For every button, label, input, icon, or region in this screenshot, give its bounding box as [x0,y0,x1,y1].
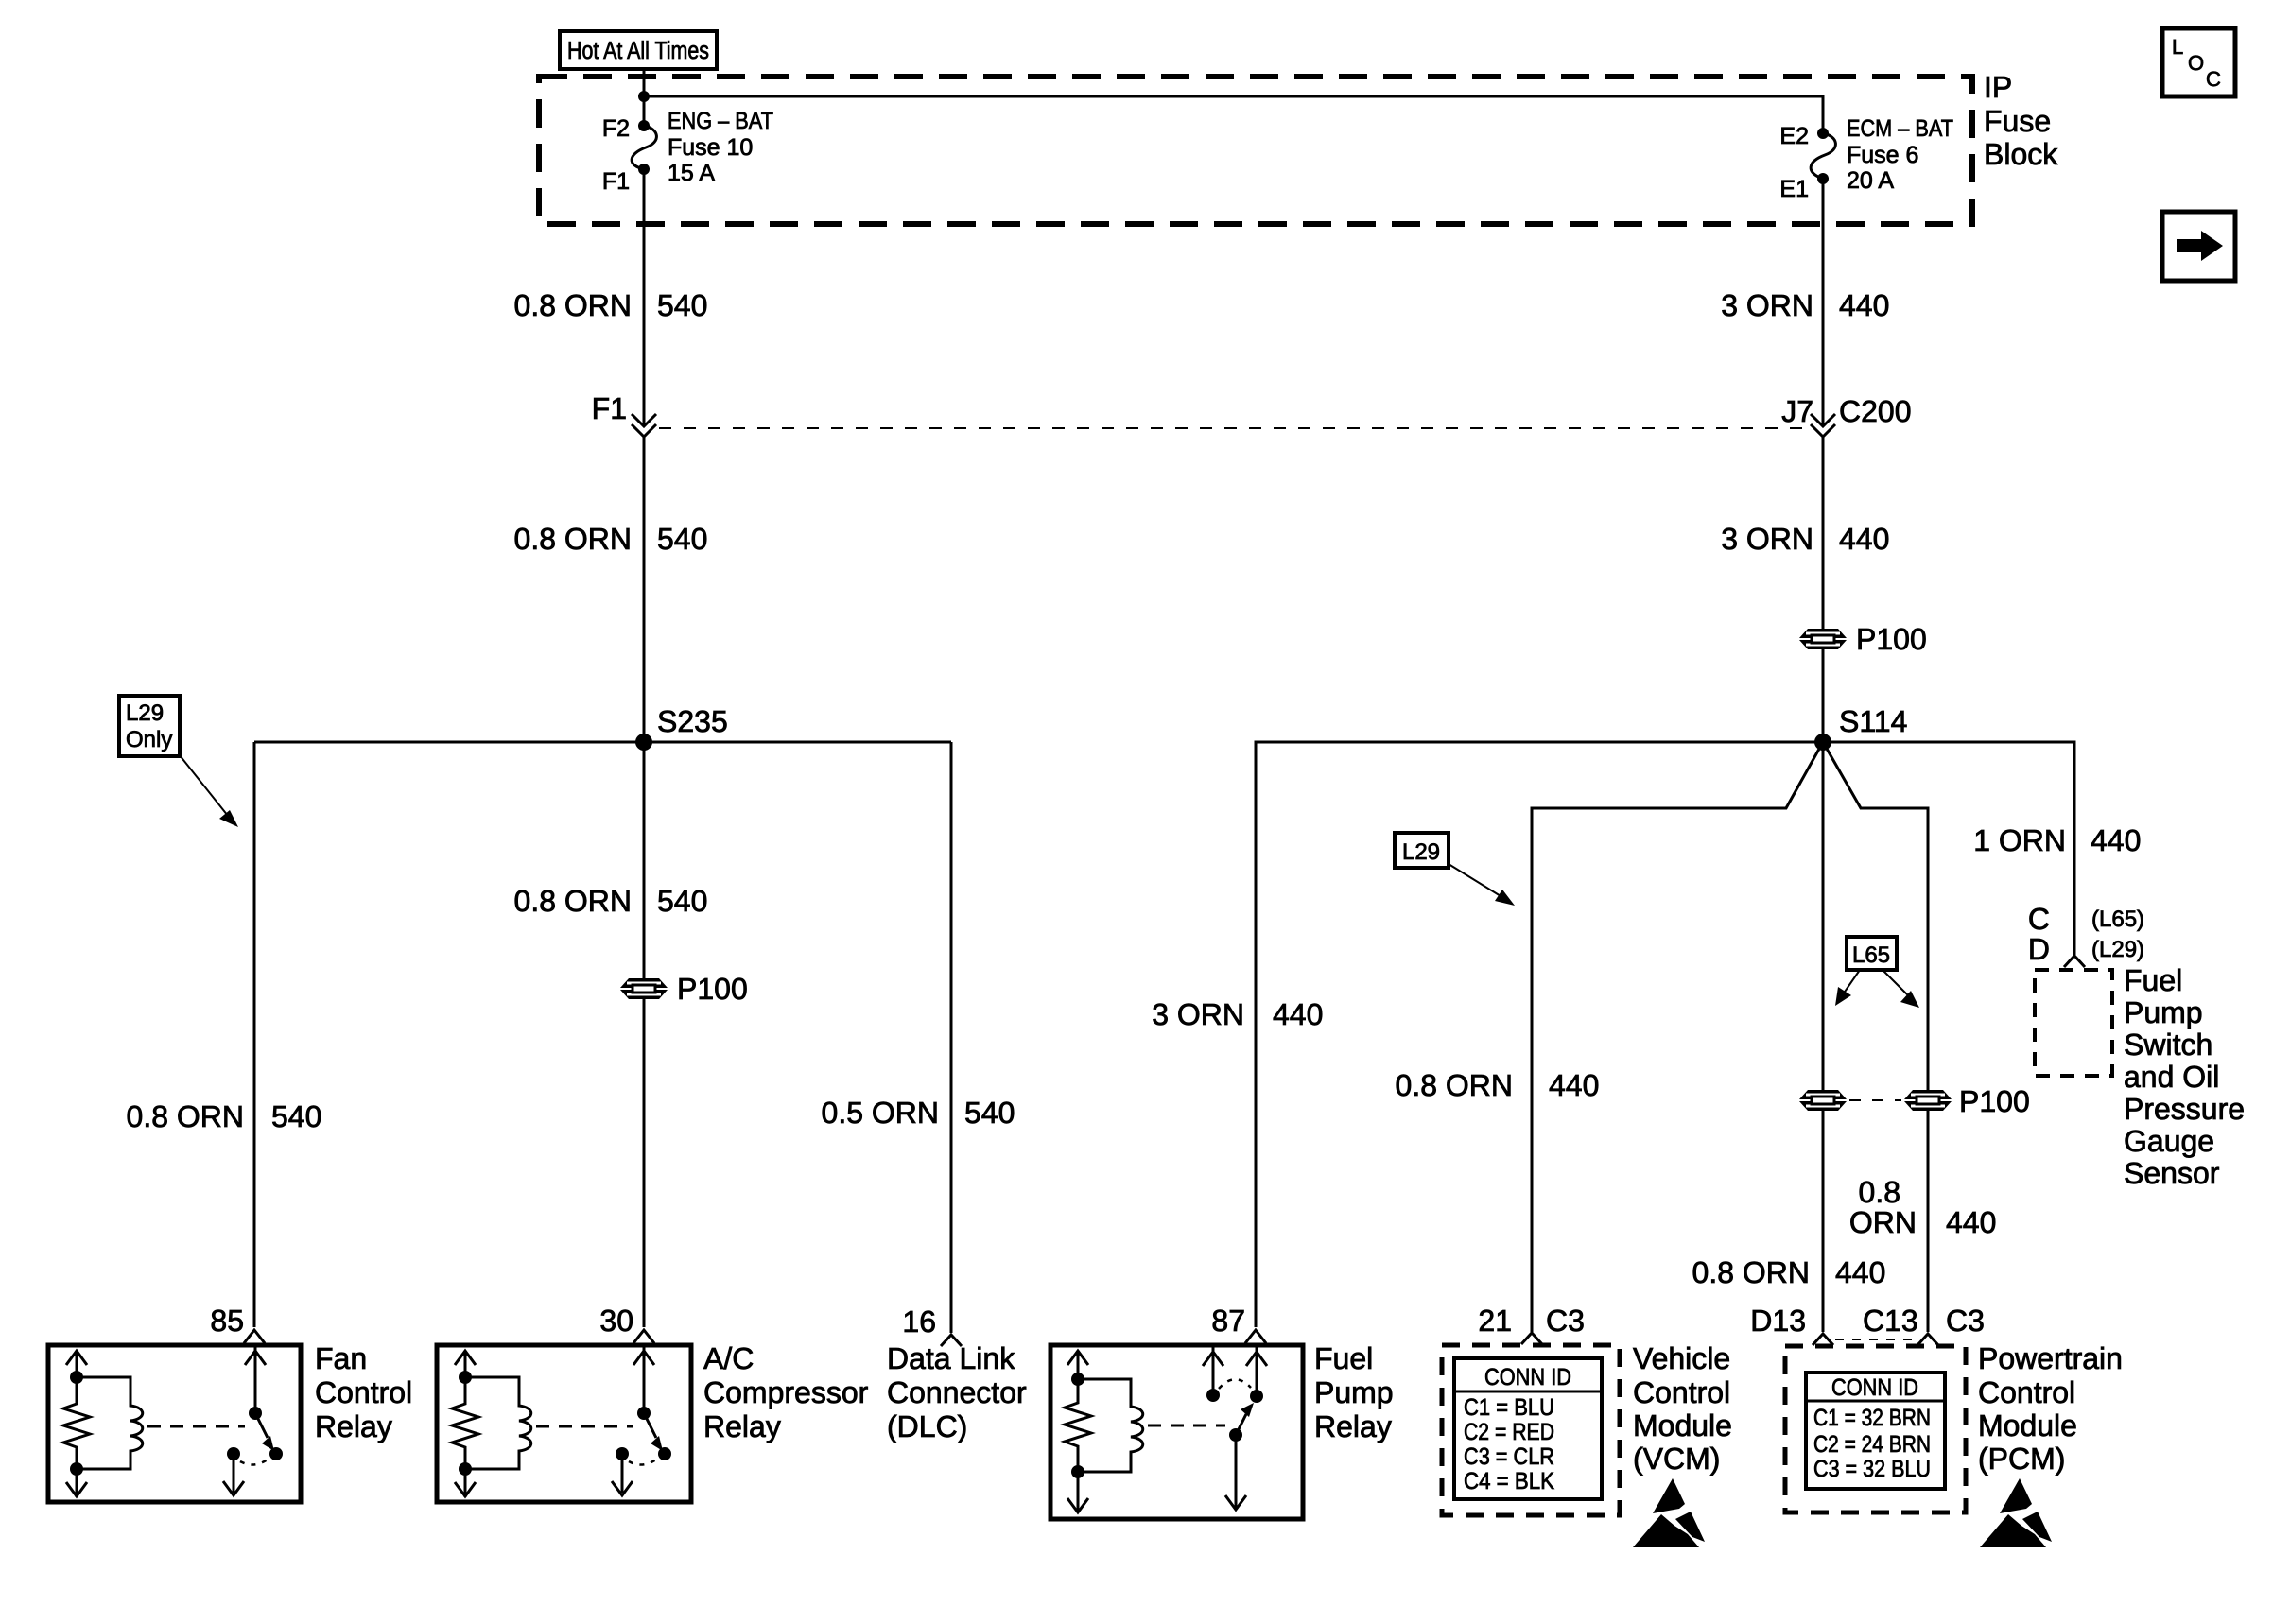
connector chevron at fuel pump switch [2064,956,2085,967]
svg-text:(DLC): (DLC) [887,1409,967,1443]
svg-text:Fuel: Fuel [2124,963,2182,997]
svg-text:0.8 ORN: 0.8 ORN [1396,1068,1513,1102]
svg-text:L29: L29 [1402,839,1440,865]
svg-text:Gauge: Gauge [2124,1124,2214,1158]
ESD warning symbol (PCM) [1980,1478,2052,1547]
svg-text:440: 440 [2091,823,2141,857]
VCM connector chevron [1521,1333,1542,1344]
wire: E1 fuse output down to inline connector J7 [1822,179,1825,424]
svg-text:Module: Module [1633,1408,1732,1443]
svg-text:D: D [2028,932,2050,966]
dashed pair link between P100 connectors [1849,1099,1901,1101]
svg-text:ENG – BAT: ENG – BAT [668,108,773,134]
svg-text:F1: F1 [592,391,627,425]
svg-text:(L65): (L65) [2091,907,2144,932]
module PCM dashed box [1785,1346,1966,1512]
svg-text:Data Link: Data Link [887,1341,1015,1375]
K2 movement dashed arc [629,1457,660,1465]
splice S235 [635,734,652,751]
svg-text:87: 87 [1211,1304,1245,1338]
wire label 0.8 ORN 440 (C3 branch, two-line) [1849,1175,1997,1239]
svg-text:85: 85 [210,1304,244,1338]
svg-text:540: 540 [271,1099,321,1133]
K3 coil winding [1078,1379,1143,1472]
svg-text:P100: P100 [677,972,748,1006]
inline connector J7/C200 chevrons [1811,414,1835,426]
K2 coil rail with resistor [452,1351,478,1497]
svg-text:0.8 ORN: 0.8 ORN [514,522,632,556]
wire label 3 ORN 440 [1721,288,1889,322]
K3 movement dashed arc [1219,1379,1251,1389]
connector C200 dashed pair line [659,427,1808,429]
svg-text:Relay: Relay [315,1409,392,1443]
svg-text:C3 = 32 BLU: C3 = 32 BLU [1813,1456,1931,1482]
K3 switch blade [1229,1428,1242,1442]
component name Powertrain Control Module (PCM) [1978,1341,2123,1476]
svg-text:540: 540 [657,288,707,322]
wire: fan relay branch [253,742,256,1327]
svg-text:540: 540 [657,884,707,918]
ESD warning symbol (VCM) [1633,1478,1705,1547]
svg-text:Module: Module [1978,1408,2077,1443]
inline connector P100 (center) [620,978,668,999]
K2 coil-to-switch dashed link [536,1425,633,1428]
K1 switch blade [255,1413,268,1438]
svg-text:(L29): (L29) [2091,937,2144,962]
wire: S114 straight down to PCM D13 [1822,742,1825,1332]
svg-text:C1 = BLU: C1 = BLU [1464,1394,1554,1421]
relay K1 Fan Control Relay box [48,1345,301,1502]
fuse ENG-BAT Fuse 10 terminals [638,120,650,131]
relay K3 Fuel Pump Relay box [1050,1345,1303,1519]
label box L29 with arrow [1395,833,1515,906]
wire label 0.8 ORN 540 (center) [514,884,708,918]
svg-text:S235: S235 [657,704,728,738]
icon arrow box [2162,212,2235,281]
svg-text:0.8 ORN: 0.8 ORN [1692,1255,1810,1289]
wire: S114 right diagonal branch to PCM C3 [1823,742,1928,1332]
svg-text:S114: S114 [1839,704,1907,738]
IP fuse block dashed boundary [539,77,1972,224]
wire label 0.8 ORN 440 (D13 branch) [1692,1255,1886,1289]
svg-text:F2: F2 [602,115,630,142]
component name Fuel Pump Relay [1314,1341,1394,1443]
svg-text:0.8: 0.8 [1859,1175,1900,1209]
svg-text:1 ORN: 1 ORN [1973,823,2066,857]
svg-text:0.8 ORN: 0.8 ORN [514,884,632,918]
svg-text:CONN ID: CONN ID [1484,1364,1571,1391]
svg-text:ECM – BAT: ECM – BAT [1847,115,1953,142]
svg-text:CONN ID: CONN ID [1831,1374,1918,1401]
svg-text:Powertrain: Powertrain [1978,1341,2123,1375]
inline connector P100 (pair, left) [1799,1090,1847,1111]
K1 coil winding [77,1377,143,1469]
inline connector P100 (right main) [1799,629,1847,649]
fuse ENG-BAT element [632,126,656,169]
K2 coil winding [465,1377,531,1469]
wire label 0.8 ORN 540 (second) [514,522,708,556]
K3 normally-open stub [1212,1346,1215,1395]
svg-text:C3: C3 [1946,1304,1985,1338]
svg-text:440: 440 [1839,522,1889,556]
label box L29 Only [119,696,238,827]
K3 coil rail with resistor [1065,1351,1091,1512]
svg-text:(VCM): (VCM) [1633,1442,1720,1476]
fuse ENG-BAT value labels [668,108,773,186]
component name Vehicle Control Module (VCM) [1633,1341,1732,1476]
svg-text:Fuse 6: Fuse 6 [1847,142,1918,168]
svg-text:3 ORN: 3 ORN [1152,997,1244,1031]
svg-text:C200: C200 [1839,394,1912,428]
svg-text:Sensor: Sensor [2124,1156,2220,1190]
svg-text:440: 440 [1835,1255,1885,1289]
PCM connector dashed pair line [1835,1339,1916,1340]
svg-text:L29: L29 [126,700,164,726]
svg-text:0.8 ORN: 0.8 ORN [514,288,632,322]
svg-text:Fuse: Fuse [1984,104,2051,138]
wire: S235 horizontal rail [254,741,951,744]
wire label 0.5 ORN 540 (DLC) [822,1096,1015,1130]
svg-text:Fan: Fan [315,1341,367,1375]
svg-text:Vehicle: Vehicle [1633,1341,1730,1375]
svg-text:Control: Control [315,1375,412,1409]
svg-text:15 A: 15 A [668,160,715,186]
svg-text:Hot At All Times: Hot At All Times [567,36,709,64]
component name Fan Control Relay [315,1341,412,1443]
connector J7 C200 labels [1781,394,1911,428]
svg-text:Relay: Relay [703,1409,781,1443]
svg-text:540: 540 [964,1096,1015,1130]
svg-text:(PCM): (PCM) [1978,1442,2065,1476]
K2 fixed contact [616,1447,629,1460]
svg-text:L: L [2172,35,2183,59]
wire: S114 horizontal rail right to fuel pump switch [1823,742,2074,955]
svg-text:440: 440 [1946,1205,1996,1239]
svg-text:Pump: Pump [2124,995,2203,1029]
svg-text:540: 540 [657,522,707,556]
svg-text:O: O [2188,51,2204,75]
wire label 0.8 ORN 440 (VCM branch) [1396,1068,1600,1102]
svg-text:Control: Control [1633,1375,1730,1409]
svg-text:C1 = 32 BRN: C1 = 32 BRN [1813,1405,1931,1431]
svg-text:Pressure: Pressure [2124,1092,2245,1126]
VCM pin labels 21 / C3 [1478,1304,1585,1338]
wire label 0.8 ORN 540 [514,288,708,322]
K1 coil-to-switch dashed link [147,1425,245,1428]
svg-text:L65: L65 [1852,942,1890,968]
fuse ECM-BAT value labels [1847,115,1953,194]
svg-text:C: C [2206,67,2221,91]
svg-text:E2: E2 [1779,123,1809,149]
K1 movement dashed arc [240,1457,271,1465]
wire: S114 horizontal rail left to fuel pump relay [1256,742,1823,1327]
inline connector F1 (male/female chevrons) [632,414,656,426]
svg-text:P100: P100 [1959,1084,2030,1118]
component name A/C Compressor Relay [703,1341,869,1443]
module VCM dashed box [1442,1345,1620,1515]
svg-text:C4 = BLK: C4 = BLK [1464,1468,1554,1494]
label box "Hot At All Times" [560,31,717,69]
svg-text:0.5 ORN: 0.5 ORN [822,1096,939,1130]
wire label 3 ORN 440 (second) [1721,522,1889,556]
wire: F1 fuse output down to inline connector [643,169,646,424]
inline connector P100 (pair, right) [1904,1090,1952,1111]
wire: connector to S235 [643,437,646,742]
PCM pin labels D13 / C13 / C3 [1750,1304,1985,1338]
K1 fixed contact [227,1447,240,1460]
connector C/D labels [2028,902,2144,966]
svg-text:0.8 ORN: 0.8 ORN [127,1099,244,1133]
relay K2 A/C Compressor Relay box [437,1345,691,1502]
svg-text:440: 440 [1839,288,1889,322]
label box L65 with two arrows [1835,937,1919,1008]
wire: C200 to S114 [1822,437,1825,742]
svg-text:3 ORN: 3 ORN [1721,522,1813,556]
svg-text:C3: C3 [1546,1304,1585,1338]
svg-text:D13: D13 [1750,1304,1806,1338]
PCM connector chevrons [1813,1334,1833,1345]
K3 coil-to-switch dashed link [1148,1425,1225,1427]
component: Fuel Pump Switch and Oil Pressure Gauge Sensor dashed box [2035,970,2112,1076]
K2 switch blade [644,1413,656,1438]
svg-text:Fuel: Fuel [1314,1341,1373,1375]
svg-text:21: 21 [1478,1304,1512,1338]
svg-text:30: 30 [599,1304,633,1338]
svg-text:Control: Control [1978,1375,2075,1409]
svg-text:P100: P100 [1856,622,1927,656]
svg-text:E1: E1 [1779,176,1809,202]
icon LOC box [2162,28,2235,96]
svg-text:16: 16 [902,1304,936,1339]
svg-text:Switch: Switch [2124,1028,2212,1062]
svg-text:Connector: Connector [887,1375,1027,1409]
wire: center branch S235 to A/C relay [643,742,646,1327]
node: bus junction [638,91,650,102]
svg-text:Fuse 10: Fuse 10 [668,134,753,161]
svg-text:Relay: Relay [1314,1409,1392,1443]
K1 switch common leg [254,1346,257,1413]
svg-text:F1: F1 [602,168,630,195]
fuse ECM-BAT element [1811,133,1835,179]
svg-text:J7: J7 [1781,394,1813,428]
svg-text:Only: Only [126,727,172,752]
svg-text:Pump: Pump [1314,1375,1394,1409]
svg-text:Block: Block [1984,137,2058,171]
svg-text:440: 440 [1273,997,1323,1031]
svg-text:IP: IP [1984,70,2012,104]
K3 common leg down [1235,1435,1238,1510]
svg-text:3 ORN: 3 ORN [1721,288,1813,322]
svg-text:440: 440 [1549,1068,1599,1102]
K1 coil rail with resistor [63,1351,90,1497]
VCM CONN ID table [1454,1358,1602,1499]
svg-text:ORN: ORN [1849,1205,1917,1239]
K3 output leg (pin 87) [1256,1346,1258,1396]
PCM CONN ID table [1806,1373,1945,1489]
wire label 3 ORN 440 (fuel pump branch) [1152,997,1323,1031]
svg-text:C2 = RED: C2 = RED [1464,1419,1554,1445]
K2 switch common leg [643,1346,646,1413]
svg-text:and Oil: and Oil [2124,1060,2219,1094]
IP Fuse Block name [1984,70,2058,171]
fuse ECM-BAT Fuse 6 terminals [1817,128,1829,139]
splice S114 [1814,734,1831,751]
component name Data Link Connector (DLC) [887,1341,1027,1443]
svg-text:C: C [2028,902,2050,936]
svg-text:Compressor: Compressor [703,1375,869,1409]
wire: S114 left diagonal branch to VCM [1532,742,1823,1332]
wire: DLC branch [950,742,953,1333]
svg-text:C13: C13 [1863,1304,1918,1338]
wire: bus to ECM fuse [644,96,1823,133]
wire label 0.8 ORN 540 (fan branch) [127,1099,322,1133]
svg-text:A/C: A/C [703,1341,754,1375]
wire: HAAT box to bus [643,69,646,126]
wire label 1 ORN 440 [1973,823,2141,857]
svg-text:C3 = CLR: C3 = CLR [1464,1443,1554,1470]
svg-text:C2 = 24 BRN: C2 = 24 BRN [1813,1431,1931,1458]
svg-text:20 A: 20 A [1847,167,1894,194]
